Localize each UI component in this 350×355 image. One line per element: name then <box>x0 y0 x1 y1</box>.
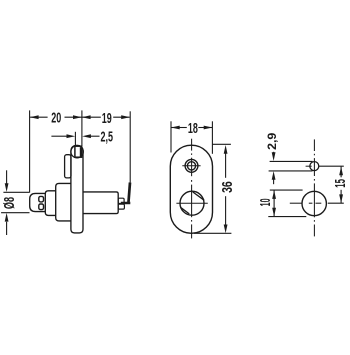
flange section <box>56 183 71 221</box>
dim 10 line <box>273 190 275 216</box>
clip tab <box>65 155 71 178</box>
boot collar section <box>45 191 56 216</box>
chord lower left <box>181 207 190 214</box>
dim 10 ext bottom <box>268 216 306 218</box>
dim 15 line <box>340 167 342 178</box>
svg-text:36: 36 <box>218 181 235 193</box>
dim 18 arrows <box>171 126 180 130</box>
terminal tab lower <box>118 204 124 209</box>
terminal blade vertical <box>128 183 130 204</box>
screw inner circle <box>187 162 195 170</box>
plunger rib lower <box>39 204 44 210</box>
plunger rib upper <box>39 196 44 202</box>
dim 2,9 lower arrow <box>273 179 275 184</box>
dim 2,9 upper arrow <box>273 152 275 154</box>
extension line terminal end <box>129 111 131 182</box>
dim 36 ext top <box>212 143 231 145</box>
centerline vertical front view <box>191 139 193 239</box>
dim 36 ext bottom <box>194 232 232 234</box>
dim 10 ext top <box>270 189 303 191</box>
dim line O8 vertical bottom <box>6 222 8 235</box>
centerline vertical right view <box>313 139 315 236</box>
dim 18 ext left <box>170 121 172 152</box>
dim 2,9 ext bottom <box>269 170 313 172</box>
extension line plunger tip <box>29 110 31 192</box>
big hole circle <box>180 191 204 215</box>
dim 19 arrows <box>82 115 91 119</box>
big hole horizontal centerline <box>176 202 207 204</box>
dim 15 arrows <box>339 167 343 176</box>
dim 36 arrows <box>224 145 228 154</box>
O8 extension top <box>3 191 29 193</box>
dim 10 arrows <box>272 190 276 199</box>
barrel body <box>83 192 118 214</box>
extension line plate back <box>81 110 83 146</box>
dim 36 line <box>225 153 227 178</box>
big hole circle right view <box>302 191 326 215</box>
small hole centerline dash <box>306 165 312 167</box>
svg-text:20: 20 <box>51 109 61 126</box>
terminal blade horizontal <box>121 202 131 205</box>
small hole circle <box>310 162 319 171</box>
svg-text:18: 18 <box>188 120 198 137</box>
dim 15 ext bottom (centerline extension) <box>328 202 344 204</box>
screw outer circle <box>185 159 198 172</box>
dim line O8 vertical top <box>6 170 8 184</box>
svg-text:2,5: 2,5 <box>101 128 114 145</box>
svg-text:2,9: 2,9 <box>266 132 279 150</box>
dim 15 ext top <box>319 165 344 167</box>
dim 18 ext right <box>211 121 213 154</box>
dim 20 arrows <box>30 115 39 119</box>
terminal tab upper <box>118 198 124 203</box>
svg-text:19: 19 <box>102 109 112 126</box>
chord upper right <box>193 192 205 200</box>
extension line screw front <box>74 132 76 146</box>
mounting plate <box>71 145 83 233</box>
O8 extension bottom <box>1 212 29 214</box>
dim 2,5 leader left <box>51 135 67 137</box>
dim 2,5 leader right <box>91 135 100 137</box>
svg-text:15: 15 <box>331 179 349 188</box>
oval plate outline <box>170 145 212 233</box>
svg-text:10: 10 <box>257 198 274 206</box>
screw head circle on plate top <box>71 146 83 158</box>
svg-text:Ø8: Ø8 <box>1 197 18 209</box>
screw horizontal centerline <box>182 165 200 167</box>
dim 20 line <box>30 116 47 118</box>
big hole horizontal centerline right view <box>290 202 322 204</box>
screw head rect <box>75 146 82 157</box>
plunger cap <box>30 193 46 211</box>
dim 2,9 ext top <box>270 160 313 162</box>
dim 19 line <box>82 116 101 118</box>
dim 18 line <box>171 127 187 129</box>
